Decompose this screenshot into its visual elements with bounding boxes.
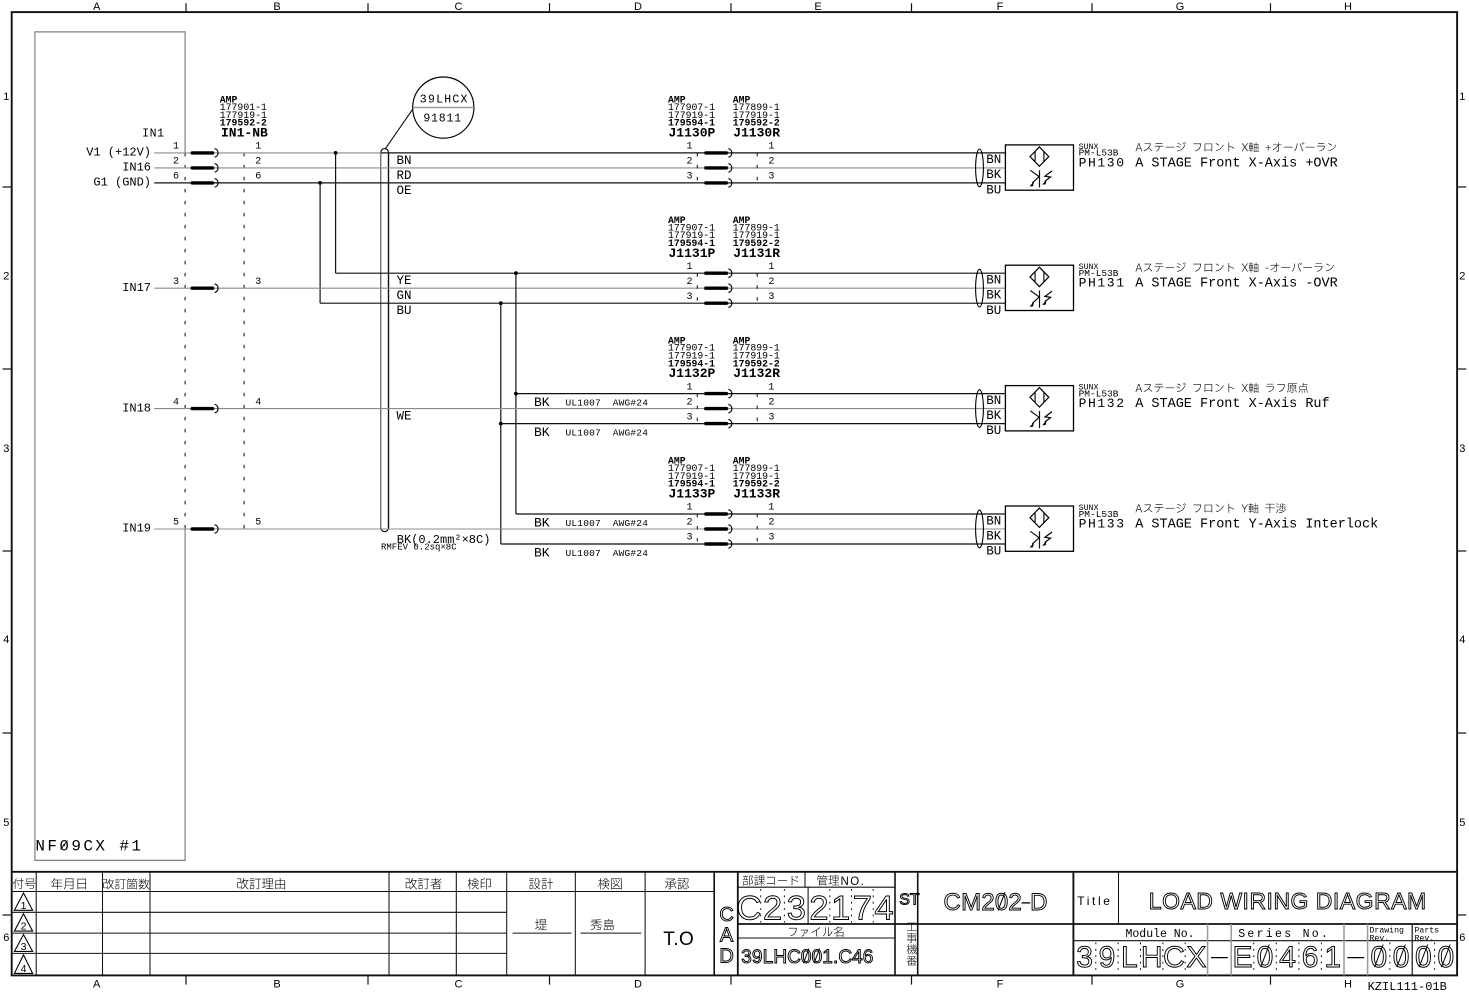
svg-text:BN: BN <box>397 154 412 168</box>
title block col lines <box>35 872 37 976</box>
junction dot row2 pin1 tap <box>514 271 518 275</box>
svg-text:KZIL111-01B: KZIL111-01B <box>1368 980 1447 992</box>
svg-text:IN1-NB: IN1-NB <box>221 126 268 141</box>
svg-text:7: 7 <box>853 889 872 927</box>
title label divider <box>1118 872 1120 924</box>
svg-text:1: 1 <box>1459 91 1465 103</box>
revision row lines <box>12 911 507 913</box>
designer signature underline <box>513 932 572 934</box>
svg-text:3: 3 <box>768 292 774 303</box>
svg-text:6: 6 <box>1302 941 1319 974</box>
svg-text:R: R <box>1374 888 1391 914</box>
svg-text:J1130R: J1130R <box>733 126 780 141</box>
photo sensor PH131 box <box>1005 265 1073 310</box>
svg-text:C: C <box>1163 941 1185 974</box>
connector IN1 pin 1 contact <box>192 151 212 154</box>
photo sensor PH130 box <box>1005 145 1073 190</box>
svg-text:3: 3 <box>768 172 774 183</box>
header kanri no <box>817 875 828 885</box>
svg-text:J1130P: J1130P <box>669 126 716 141</box>
svg-text:L: L <box>1121 941 1138 974</box>
connector J1132 pin 1 contact <box>706 392 727 395</box>
connector column J1133R dashed line <box>756 514 758 544</box>
svg-text:UL1007 AWG#24: UL1007 AWG#24 <box>566 548 649 559</box>
header ken-in <box>468 878 480 889</box>
svg-text:BK: BK <box>534 545 550 560</box>
svg-text:2: 2 <box>763 889 782 927</box>
wire BK row3 pin3 <box>501 423 1006 425</box>
svg-text:3: 3 <box>255 277 261 288</box>
svg-text:91811: 91811 <box>423 112 462 125</box>
revision mark triangle 1 <box>14 893 32 910</box>
photo sensor PH132 emitter diamond <box>1030 388 1049 407</box>
svg-text:G1 (GND): G1 (GND) <box>93 176 151 190</box>
svg-text:T.O: T.O <box>663 929 694 950</box>
title block top line <box>12 871 1457 873</box>
dept code header underline <box>738 886 895 888</box>
connector IN1 pin 5 contact <box>192 527 212 530</box>
svg-text:1: 1 <box>686 142 692 153</box>
svg-text:1: 1 <box>21 900 27 912</box>
svg-text:C: C <box>787 947 801 968</box>
svg-text:6: 6 <box>255 172 261 183</box>
svg-text:2: 2 <box>768 518 774 529</box>
svg-text:4: 4 <box>21 963 27 975</box>
header kaitei riyu <box>237 878 248 889</box>
connector J1133 pin 3 contact <box>706 542 727 545</box>
module char separators <box>1095 943 1097 975</box>
svg-text:J1131P: J1131P <box>669 246 716 261</box>
svg-text:OE: OE <box>397 184 412 198</box>
sensor PH131 description japanese <box>1136 264 1143 272</box>
svg-text:C: C <box>719 904 733 926</box>
svg-text:0: 0 <box>1370 941 1387 974</box>
wire BK row4 pin1 <box>516 513 1006 515</box>
sensor PH133 description japanese <box>1136 504 1143 512</box>
header fugo <box>13 878 24 889</box>
svg-text:4: 4 <box>852 947 863 968</box>
svg-text:BN: BN <box>986 514 1001 528</box>
svg-text:39LHCX: 39LHCX <box>420 94 469 107</box>
svg-text:E: E <box>814 1 821 13</box>
svg-text:1: 1 <box>3 91 9 103</box>
svg-text:4: 4 <box>1459 634 1465 646</box>
wire row2 pin1 tap vertical <box>515 273 517 514</box>
svg-text:A STAGE Front Y-Axis Interlock: A STAGE Front Y-Axis Interlock <box>1135 517 1378 532</box>
svg-text:3: 3 <box>686 292 692 303</box>
cable sheath left line <box>380 152 382 528</box>
connector IN1 pin 2 contact <box>192 166 212 169</box>
module row divider <box>1073 940 1457 942</box>
svg-text:3: 3 <box>686 533 692 544</box>
connector J1131 pin 1 contact <box>706 272 727 275</box>
svg-text:N: N <box>1273 888 1290 914</box>
connector IN1 pin 3 contact <box>192 287 212 290</box>
connector column J1132R dashed line <box>756 394 758 424</box>
connector J1130 pin 1 contact <box>706 151 727 154</box>
wire BN row1 pin1 <box>381 152 1005 154</box>
svg-text:I: I <box>1243 888 1249 914</box>
svg-text:J1133P: J1133P <box>669 487 716 502</box>
callout circle 39LHCX/91811 <box>413 77 474 138</box>
svg-text:3: 3 <box>741 947 752 968</box>
svg-text:A: A <box>93 979 101 991</box>
svg-text:BU: BU <box>986 424 1001 438</box>
svg-text:BU: BU <box>986 304 1001 318</box>
wire BU row2 pin3 <box>320 302 1005 304</box>
photo sensor PH132 box <box>1005 386 1073 431</box>
svg-text:3: 3 <box>787 889 806 927</box>
svg-text:BK: BK <box>534 515 550 530</box>
connector J1132 pin 3 contact <box>706 422 727 425</box>
svg-text:UL1007 AWG#24: UL1007 AWG#24 <box>566 518 649 529</box>
svg-text:1: 1 <box>768 503 774 514</box>
wire V1 +12V from NF09CX <box>154 152 381 154</box>
cable end sleeve PH132 <box>976 390 984 428</box>
svg-text:G: G <box>1356 888 1374 914</box>
connector J1133 pin 1 contact <box>706 512 727 515</box>
connector column J1132P dashed line <box>696 394 698 424</box>
svg-text:UL1007 AWG#24: UL1007 AWG#24 <box>566 397 649 408</box>
svg-text:2: 2 <box>768 157 774 168</box>
svg-text:R: R <box>1249 888 1266 914</box>
svg-text:A: A <box>720 925 734 947</box>
revision mark triangle 3 <box>14 935 32 952</box>
svg-text:0: 0 <box>812 947 823 968</box>
header shounin <box>665 879 677 890</box>
junction dot row3 pin1 <box>514 392 518 396</box>
svg-text:RMFEV 0.2sq×8C: RMFEV 0.2sq×8C <box>381 543 457 553</box>
cable end sleeve PH130 <box>976 149 984 187</box>
photo sensor PH130 receiver symbol <box>1039 170 1041 187</box>
svg-text:C: C <box>455 979 463 991</box>
svg-text:Title: Title <box>1077 894 1112 908</box>
svg-text:YE: YE <box>397 274 412 288</box>
header date <box>51 878 62 889</box>
svg-text:D: D <box>634 979 642 991</box>
svg-text:BU: BU <box>986 545 1001 559</box>
cable sheath bottom arc <box>381 528 389 532</box>
svg-text:3: 3 <box>173 277 179 288</box>
svg-text:3: 3 <box>686 412 692 423</box>
svg-text:H: H <box>1344 979 1352 991</box>
svg-text:IN1: IN1 <box>142 128 165 141</box>
svg-text:1: 1 <box>1324 941 1341 974</box>
svg-text:2: 2 <box>809 889 828 927</box>
checker name Hideshima <box>591 919 602 930</box>
svg-text:2: 2 <box>768 277 774 288</box>
svg-text:6: 6 <box>173 172 179 183</box>
svg-text:9: 9 <box>752 947 763 968</box>
svg-text:A STAGE Front X-Axis +OVR: A STAGE Front X-Axis +OVR <box>1135 156 1338 171</box>
svg-text:RD: RD <box>397 169 412 183</box>
svg-text:I: I <box>1333 888 1339 914</box>
code char separators <box>760 889 762 923</box>
svg-text:BK: BK <box>986 529 1002 543</box>
svg-text:2: 2 <box>981 889 994 916</box>
connector column IN1-NB dashed line <box>243 153 245 529</box>
sensor PH130 description japanese <box>1136 143 1143 151</box>
svg-text:9: 9 <box>1099 941 1116 974</box>
photo sensor PH131 emitter diamond <box>1030 267 1049 286</box>
svg-text:X: X <box>1186 941 1206 974</box>
svg-text:D: D <box>719 946 733 968</box>
svg-text:1: 1 <box>686 503 692 514</box>
svg-text:2: 2 <box>768 397 774 408</box>
svg-text:J1133R: J1133R <box>733 487 780 502</box>
svg-text:3: 3 <box>21 941 27 953</box>
svg-text:3: 3 <box>768 412 774 423</box>
svg-text:IN18: IN18 <box>122 401 151 415</box>
junction dot V1 tap <box>334 151 338 155</box>
svg-text:BN: BN <box>986 394 1001 408</box>
svg-text:3: 3 <box>1076 941 1093 974</box>
svg-text:BU: BU <box>986 184 1001 198</box>
wire IN17/GN row2 pin2 <box>154 287 1005 289</box>
svg-text:GN: GN <box>397 289 412 303</box>
svg-text:E: E <box>814 979 821 991</box>
svg-text:2: 2 <box>686 518 692 529</box>
svg-text:1: 1 <box>686 262 692 273</box>
junction dot row2 pin3 tap <box>499 301 503 305</box>
photo sensor PH133 box <box>1005 506 1073 551</box>
svg-text:G: G <box>1176 1 1185 13</box>
svg-text:5: 5 <box>173 518 179 529</box>
svg-text:1: 1 <box>822 947 833 968</box>
svg-text:J1132R: J1132R <box>733 366 780 381</box>
svg-text:O: O <box>1162 888 1180 914</box>
callout leader line <box>385 110 412 149</box>
connector J1132 pin 2 contact <box>706 407 727 410</box>
title mid line <box>738 923 1457 925</box>
svg-text:C: C <box>944 889 961 916</box>
svg-text:F: F <box>997 979 1004 991</box>
svg-text:3: 3 <box>768 533 774 544</box>
connector J1130 pin 3 contact <box>706 181 727 184</box>
connector J1130 pin 2 contact <box>706 166 727 169</box>
header bukka code <box>743 875 753 885</box>
svg-text:4: 4 <box>3 634 9 646</box>
svg-text:NF09CX #1: NF09CX #1 <box>35 838 143 856</box>
wire row2 pin3 tap vertical <box>500 303 502 544</box>
svg-text:PH133: PH133 <box>1079 516 1126 531</box>
svg-text:2: 2 <box>21 921 27 933</box>
svg-text:C: C <box>736 889 761 927</box>
wire G1 GND/OE row1 pin3 <box>154 182 1005 184</box>
svg-text:2: 2 <box>686 157 692 168</box>
svg-text:BK: BK <box>534 425 550 440</box>
cable sheath right line <box>388 152 390 528</box>
svg-text:2: 2 <box>173 157 179 168</box>
wire IN18/WE row3 pin2 <box>154 408 1005 410</box>
svg-text:E: E <box>1232 941 1252 974</box>
svg-text:H: H <box>773 947 787 968</box>
svg-text:NO.: NO. <box>841 876 866 888</box>
svg-text:0: 0 <box>1257 941 1274 974</box>
svg-text:A STAGE Front X-Axis -OVR: A STAGE Front X-Axis -OVR <box>1135 277 1338 292</box>
koji kiban vertical label2 <box>907 933 917 943</box>
header kaitei sha <box>406 878 417 889</box>
connector column J1131P dashed line <box>696 273 698 303</box>
connector column J1133P dashed line <box>696 514 698 544</box>
svg-text:H: H <box>1141 941 1163 974</box>
photo sensor PH132 receiver symbol <box>1039 411 1041 428</box>
svg-text:S: S <box>899 892 910 909</box>
cable end sleeve PH133 <box>976 510 984 548</box>
svg-text:1: 1 <box>686 382 692 393</box>
svg-text:2: 2 <box>255 157 261 168</box>
koji kiban vertical label3 <box>907 944 917 954</box>
svg-text:4: 4 <box>875 889 894 927</box>
connector column J1131R dashed line <box>756 273 758 303</box>
connector column J1130P dashed line <box>696 153 698 183</box>
svg-text:PH130: PH130 <box>1079 155 1126 170</box>
photo sensor PH133 emitter diamond <box>1030 508 1049 527</box>
svg-text:J1131R: J1131R <box>733 246 780 261</box>
svg-text:0: 0 <box>1415 941 1432 974</box>
connector block NF09CX #1 outline <box>35 32 185 861</box>
svg-text:D: D <box>1030 889 1047 916</box>
svg-text:BK: BK <box>534 395 550 410</box>
svg-text:G: G <box>1176 979 1185 991</box>
svg-text:2: 2 <box>686 277 692 288</box>
svg-text:H: H <box>1344 1 1352 13</box>
svg-text:I: I <box>1267 888 1273 914</box>
wire BK row3 pin1 <box>516 393 1006 395</box>
wire YE row2 pin1 <box>336 272 1006 274</box>
svg-text:2: 2 <box>1008 889 1021 916</box>
svg-text:A: A <box>1181 888 1197 914</box>
svg-text:Series No.: Series No. <box>1238 928 1330 941</box>
svg-text:D: D <box>1196 888 1213 914</box>
svg-text:2: 2 <box>1459 271 1465 283</box>
svg-text:2: 2 <box>3 271 9 283</box>
svg-text:M: M <box>961 889 981 916</box>
cable sheath top arc <box>381 149 389 153</box>
connector column J1130R dashed line <box>756 153 758 183</box>
svg-text:1: 1 <box>255 142 261 153</box>
svg-text:PH132: PH132 <box>1079 396 1126 411</box>
svg-text:BK: BK <box>986 289 1002 303</box>
wire IN16/RD row1 pin2 <box>154 167 1005 169</box>
svg-text:J1132P: J1132P <box>669 366 716 381</box>
svg-text:BU: BU <box>397 304 412 318</box>
svg-text:BN: BN <box>986 274 1001 288</box>
svg-text:T: T <box>910 892 920 909</box>
module/series col dividers <box>1207 924 1209 975</box>
svg-text:W: W <box>1220 888 1242 914</box>
dept code header divider <box>804 872 806 887</box>
photo sensor PH130 emitter diamond <box>1030 147 1049 166</box>
photo sensor PH131 receiver symbol <box>1039 291 1041 308</box>
revision mark triangle 4 <box>14 955 32 974</box>
svg-text:1: 1 <box>768 142 774 153</box>
svg-text:UL1007 AWG#24: UL1007 AWG#24 <box>566 427 649 438</box>
svg-text:6: 6 <box>1459 932 1465 944</box>
header kenzu <box>598 878 610 889</box>
header sekkei <box>529 879 540 890</box>
svg-text:Module No.: Module No. <box>1126 928 1195 941</box>
svg-text:3: 3 <box>686 172 692 183</box>
svg-text:4: 4 <box>1279 941 1296 974</box>
svg-text:BN: BN <box>986 153 1001 167</box>
revision header underline <box>12 891 715 893</box>
svg-text:6: 6 <box>863 947 874 968</box>
connector IN1 pin 4 contact <box>192 407 212 410</box>
svg-text:IN16: IN16 <box>122 161 151 175</box>
svg-text:5: 5 <box>1459 817 1465 829</box>
koji kiban vertical label4 <box>907 956 917 966</box>
checker signature underline <box>581 932 642 934</box>
designer name Tsutsumi <box>535 919 547 931</box>
svg-text:B: B <box>273 979 280 991</box>
svg-text:B: B <box>273 1 280 13</box>
svg-text:1: 1 <box>831 889 850 927</box>
svg-text:IN17: IN17 <box>122 281 151 295</box>
svg-text:3: 3 <box>1459 443 1465 455</box>
svg-text:0: 0 <box>1393 941 1410 974</box>
svg-text:1: 1 <box>768 262 774 273</box>
svg-text:2: 2 <box>686 397 692 408</box>
svg-text:L: L <box>763 947 774 968</box>
code cell divider <box>807 887 809 924</box>
file name header underline <box>738 937 895 939</box>
wire V1 tap vertical <box>335 153 337 273</box>
svg-text:5: 5 <box>3 817 9 829</box>
svg-text:IN19: IN19 <box>122 522 151 536</box>
connector J1131 pin 3 contact <box>706 302 727 305</box>
svg-text:PH131: PH131 <box>1079 276 1126 291</box>
label koji-kiban <box>907 923 917 931</box>
junction dot GND tap <box>318 181 322 185</box>
svg-text:BK: BK <box>986 409 1002 423</box>
cable end sleeve PH131 <box>976 269 984 307</box>
svg-text:M: M <box>1407 888 1426 914</box>
svg-text:6: 6 <box>3 932 9 944</box>
photo sensor PH133 receiver symbol <box>1039 531 1041 548</box>
revision mark triangle 2 <box>14 914 32 931</box>
svg-text:C: C <box>455 1 463 13</box>
wire IN19 row4 pin2 <box>154 528 1005 530</box>
svg-text:L: L <box>1149 888 1162 914</box>
svg-text:F: F <box>997 1 1004 13</box>
svg-text:1: 1 <box>768 382 774 393</box>
svg-text:D: D <box>634 1 642 13</box>
wire BK row4 pin3 <box>501 543 1006 545</box>
svg-text:D: D <box>1316 888 1333 914</box>
header kaitei kosu <box>103 879 114 890</box>
sensor PH132 description japanese <box>1136 384 1143 392</box>
junction dot row3 pin3 <box>499 422 503 426</box>
svg-text:4: 4 <box>173 397 179 408</box>
svg-text:WE: WE <box>397 410 412 424</box>
svg-text:G: G <box>1291 888 1309 914</box>
svg-text:5: 5 <box>255 518 261 529</box>
svg-text:A: A <box>1391 888 1407 914</box>
svg-text:3: 3 <box>3 443 9 455</box>
connector IN1 pin 6 contact <box>192 181 212 184</box>
svg-text:1: 1 <box>173 142 179 153</box>
svg-text:C: C <box>838 947 852 968</box>
svg-text:A: A <box>1340 888 1356 914</box>
svg-text:BK: BK <box>986 168 1002 182</box>
connector J1131 pin 2 contact <box>706 287 727 290</box>
svg-text:4: 4 <box>255 397 261 408</box>
svg-text:A: A <box>93 1 101 13</box>
svg-text:0: 0 <box>1437 941 1454 974</box>
connector J1133 pin 2 contact <box>706 527 727 530</box>
svg-text:A STAGE Front X-Axis Ruf: A STAGE Front X-Axis Ruf <box>1135 397 1329 412</box>
